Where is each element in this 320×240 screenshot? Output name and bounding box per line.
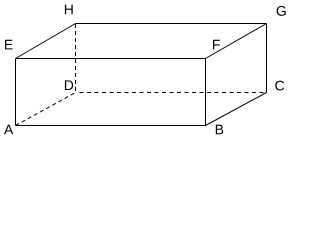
node E label [5,40,13,50]
node A label [4,125,13,135]
wire FG top-right diagonal [206,24,267,59]
node F label [213,40,220,50]
node H label [65,5,73,15]
node C label [275,81,284,91]
wire GC right back edge [266,24,268,93]
node B label [216,125,223,135]
wire EH back-left top diagonal [16,24,76,59]
wire HG top back edge [76,23,267,25]
wire BC bottom-right diagonal [206,93,267,126]
node G label [277,6,286,16]
wire AE left front edge [15,59,17,126]
wire AD hidden diagonal dashed [16,93,76,126]
wire AB bottom front edge [16,125,206,127]
wire EF top front edge [16,58,206,60]
wire BF right front edge [205,59,207,126]
wire DC hidden horizontal dashed [76,92,267,94]
node D label [65,80,73,90]
wire HD hidden vertical dashed [75,24,77,93]
